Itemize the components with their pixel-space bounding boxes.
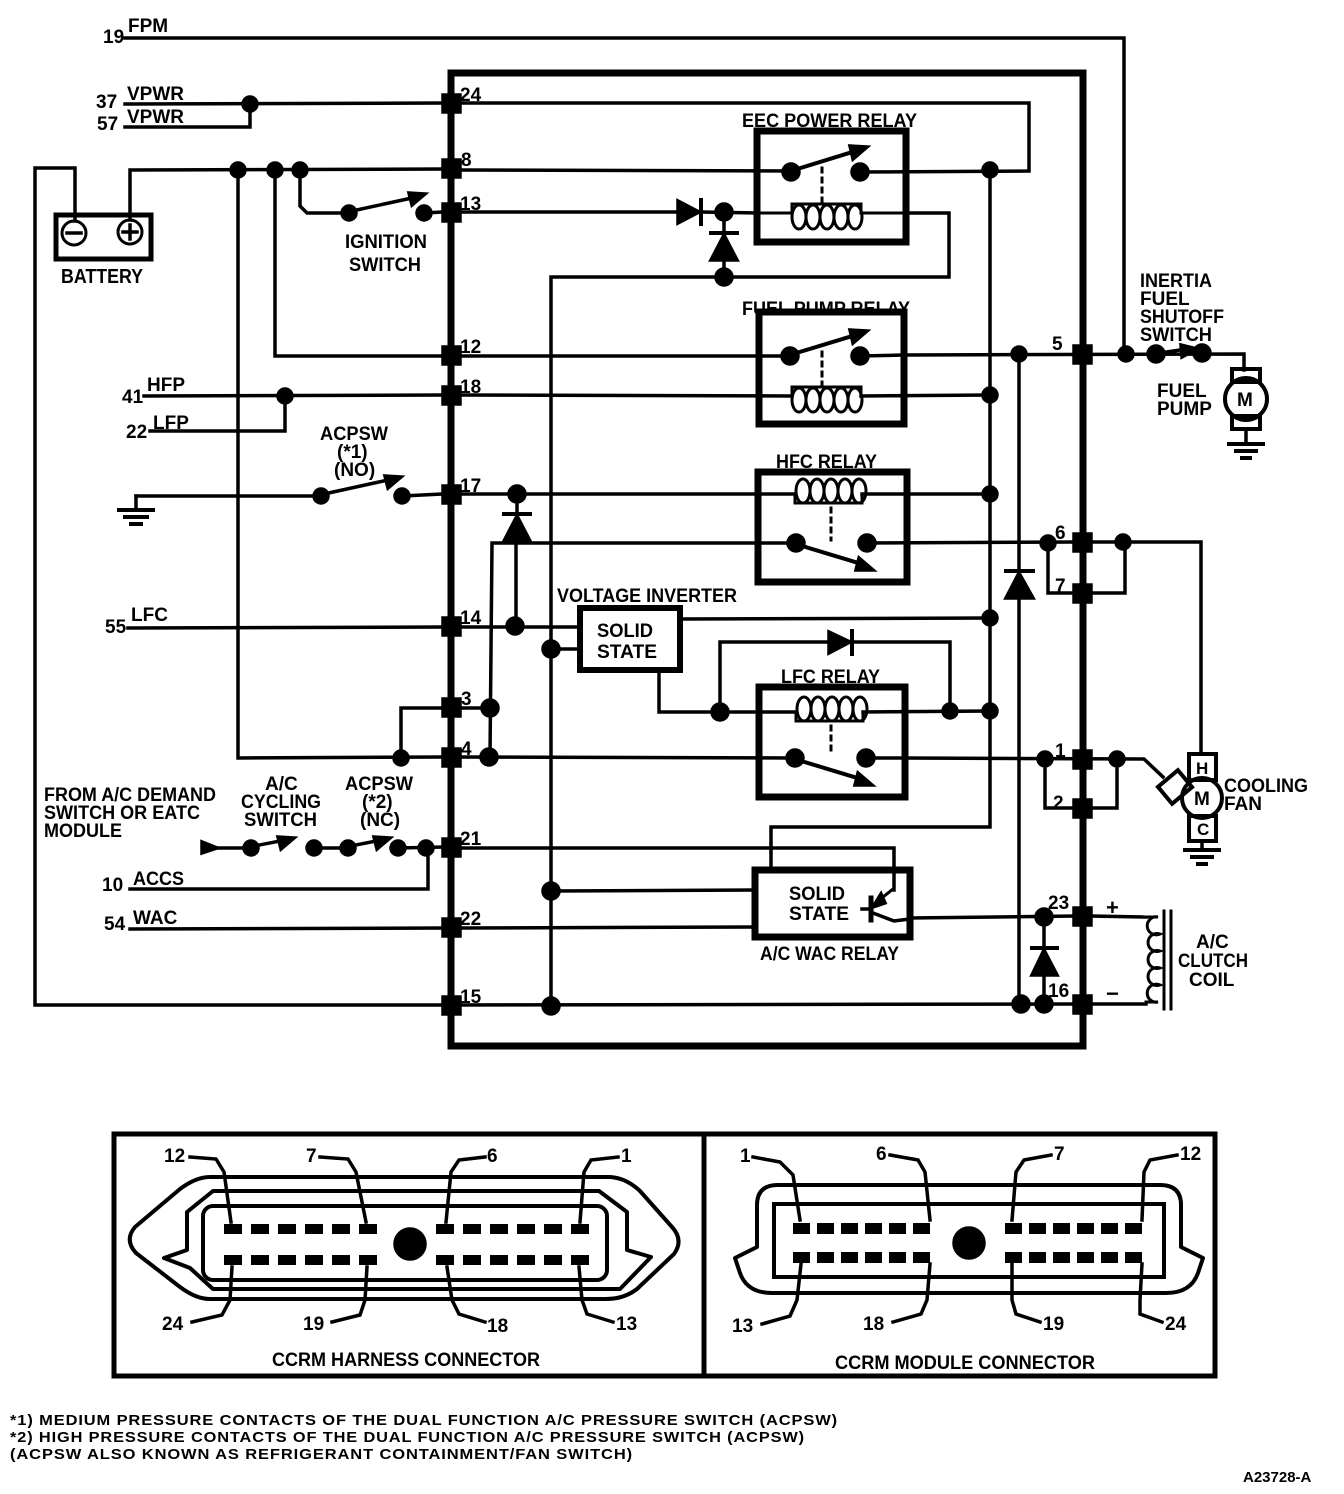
wire LFP joining HFP	[150, 396, 285, 431]
wire rail to inverter input	[551, 647, 580, 651]
wire pin7 right bracket up to pin6 line	[1091, 542, 1125, 593]
pin 1	[1055, 741, 1091, 768]
svg-text:5: 5	[1052, 334, 1063, 355]
junction rail pin16	[1013, 996, 1029, 1012]
ground ACPSW1	[119, 496, 153, 524]
svg-text:VPWR: VPWR	[127, 84, 184, 105]
pin 2	[1053, 793, 1091, 817]
svg-text:VOLTAGE INVERTER: VOLTAGE INVERTER	[557, 586, 737, 607]
harness label 18	[447, 1267, 508, 1337]
junction pin3	[482, 700, 498, 716]
pin 4	[443, 739, 472, 766]
wire LFC to pin 14	[128, 627, 443, 628]
inertia fuel shutoff switch	[1140, 271, 1224, 362]
pin 24	[443, 85, 482, 112]
junction pin13/D2	[716, 204, 732, 220]
svg-text:(NO): (NO)	[334, 460, 375, 481]
svg-text:13: 13	[732, 1316, 753, 1337]
wire inverter output to rail	[680, 618, 990, 619]
svg-text:H: H	[1196, 759, 1208, 778]
label 19 FPM	[103, 16, 168, 48]
module pins row top	[793, 1223, 1142, 1234]
junction D3 pin14	[507, 618, 523, 634]
wire battery feed down to pin 4 line	[238, 170, 443, 758]
module label 1	[740, 1146, 800, 1220]
voltage inverter U4	[557, 586, 737, 670]
svg-text:(NC): (NC)	[360, 810, 400, 831]
A/C demand chain: lead arrow	[202, 842, 217, 853]
junction HFC coil rail	[983, 487, 997, 501]
junction rail bottom pin15	[543, 998, 559, 1014]
junction pin4 inner	[481, 749, 497, 765]
junction pin6 outer	[1116, 535, 1130, 549]
svg-text:IGNITION: IGNITION	[345, 232, 427, 253]
wire pin21 into WAC relay base	[460, 848, 894, 890]
svg-text:MODULE: MODULE	[44, 821, 122, 842]
svg-text:1: 1	[621, 1146, 632, 1167]
CCRM module connector shell	[735, 1185, 1203, 1293]
pin 22	[443, 909, 481, 936]
label 22 LFP	[126, 413, 189, 443]
svg-text:24: 24	[162, 1314, 184, 1335]
wire VPWR57 joining VPWR37	[125, 104, 250, 127]
wire LFC coil right to rail	[863, 711, 990, 712]
svg-text:HFP: HFP	[147, 375, 185, 396]
wire ACCS to pin 21	[130, 848, 428, 889]
pin 21	[443, 829, 482, 856]
svg-text:18: 18	[487, 1316, 508, 1337]
CCRM module outline	[451, 73, 1083, 1046]
svg-text:10: 10	[102, 875, 123, 896]
junction diode pin16 line	[1036, 996, 1052, 1012]
label 41 HFP	[122, 375, 185, 408]
label 37 VPWR	[96, 84, 184, 113]
fuel pump motor M1	[1157, 369, 1267, 429]
diode D5	[1032, 917, 1057, 1004]
wire between switches	[314, 846, 348, 850]
pin 3	[443, 689, 472, 716]
harness label 1	[580, 1146, 632, 1222]
svg-text:19: 19	[103, 27, 124, 48]
wire pin6 to pin7 bracket left	[1048, 543, 1074, 593]
module label 12	[1142, 1144, 1201, 1220]
EEC power relay U1	[742, 111, 917, 242]
svg-text:STATE: STATE	[597, 642, 657, 663]
svg-text:SOLID: SOLID	[789, 884, 845, 905]
ACPSW NO switch labels	[320, 424, 388, 481]
pin 8	[443, 150, 472, 177]
svg-text:24: 24	[1165, 1314, 1187, 1335]
wire VPWR37 to pin 24	[125, 103, 443, 104]
junction inverter out rail	[983, 611, 997, 625]
svg-text:CCRM HARNESS CONNECTOR: CCRM HARNESS CONNECTOR	[272, 1350, 540, 1371]
ACPSW NC label	[345, 774, 413, 831]
svg-text:CLUTCH: CLUTCH	[1178, 951, 1248, 972]
wire HFP to pin 18	[144, 395, 443, 396]
junction dot b+ a	[231, 163, 245, 177]
CCRM harness connector shell	[130, 1177, 679, 1299]
wire pin12 to FP switch	[460, 354, 790, 358]
wire pin13 to diode D1	[460, 210, 678, 214]
wire WAC output to pin 23	[910, 916, 1074, 918]
svg-text:7: 7	[306, 1146, 317, 1167]
pin 17	[443, 476, 481, 503]
pin 15	[443, 987, 482, 1014]
junction EEC right vertical	[983, 163, 997, 177]
junction dot b+ c	[293, 163, 307, 177]
A/C cycling switch	[244, 837, 321, 855]
FROM A/C DEMAND text	[44, 785, 216, 842]
module label 18	[863, 1264, 930, 1335]
vertical rail pin5 to pin16 with diode D6	[1006, 354, 1033, 1004]
harness label 24	[162, 1267, 232, 1335]
module label 13	[732, 1264, 801, 1337]
harness label 13	[579, 1267, 637, 1335]
label 10 ACCS	[102, 869, 184, 896]
ACPSW NO switch	[136, 476, 443, 503]
junction LFC coil right freewheel	[943, 704, 957, 718]
wire pin14 to inverter	[460, 625, 580, 629]
wire pin1 to pin2 bracket left	[1045, 759, 1074, 808]
wire pin15 rail to pin16	[460, 1004, 1074, 1005]
svg-text:1: 1	[740, 1146, 751, 1167]
junction rail inverter input	[543, 641, 559, 657]
harness pins row top	[224, 1224, 589, 1234]
pin 14	[443, 608, 482, 635]
svg-text:55: 55	[105, 617, 127, 638]
svg-text:SOLID: SOLID	[597, 621, 653, 642]
module label 7	[1012, 1144, 1065, 1220]
svg-text:COIL: COIL	[1189, 970, 1235, 991]
junction LFC coil input	[712, 704, 728, 720]
wire pin16 to clutch coil	[1091, 1002, 1146, 1006]
svg-text:7: 7	[1054, 1144, 1065, 1165]
module label 24	[1140, 1264, 1187, 1335]
module label 19	[1012, 1264, 1064, 1335]
harness label 6	[446, 1146, 498, 1222]
diode D1	[678, 200, 757, 224]
pin 16	[1048, 981, 1091, 1013]
diode D4	[829, 631, 950, 711]
ignition switch	[300, 170, 443, 276]
fuel pump relay U2	[742, 299, 910, 424]
svg-text:M: M	[1194, 789, 1210, 810]
wire LFC switch right to pin1 and cooling fan L	[866, 758, 1163, 777]
label 54 WAC	[104, 908, 178, 935]
wire pin18 to FP coil	[460, 395, 792, 396]
svg-text:13: 13	[616, 1314, 637, 1335]
svg-text:19: 19	[1043, 1314, 1064, 1335]
pin 7	[1055, 576, 1091, 602]
wire pin3 inner stub	[460, 706, 490, 710]
svg-text:12: 12	[1180, 1144, 1201, 1165]
wire pin2 right bracket up to pin1 line	[1091, 759, 1117, 808]
svg-text:57: 57	[97, 114, 118, 135]
svg-text:M: M	[1237, 390, 1253, 411]
junction D2 bottom	[716, 269, 732, 285]
junction pin1 bracket	[1038, 752, 1052, 766]
svg-text:LFC: LFC	[131, 605, 168, 626]
harness label 7	[306, 1146, 366, 1222]
svg-text:VPWR: VPWR	[127, 107, 184, 128]
svg-text:(ACPSW ALSO KNOWN AS REFRIGERA: (ACPSW ALSO KNOWN AS REFRIGERANT CONTAIN…	[10, 1446, 633, 1463]
svg-text:SWITCH: SWITCH	[244, 810, 317, 831]
svg-text:A23728-A: A23728-A	[1243, 1469, 1312, 1486]
wire pin22 to WAC relay	[460, 927, 755, 928]
svg-text:PUMP: PUMP	[1157, 399, 1212, 420]
wire free-wheel loop with diode D4	[720, 642, 829, 712]
module pins row bottom	[793, 1252, 1142, 1263]
wire pin4 to LFC switch	[460, 757, 795, 758]
svg-text:FPM: FPM	[128, 16, 168, 37]
wire pin17 to HFC coil	[460, 492, 795, 496]
junction dot b+ b	[268, 163, 282, 177]
wire FPM pin19 to inertia junction	[125, 38, 1124, 354]
wire inverter bottom output to LFC coil	[659, 670, 795, 712]
junction pin6 bracket	[1041, 536, 1055, 550]
pin 6	[1055, 523, 1091, 551]
junction rail WAC	[543, 883, 559, 899]
cooling fan	[1158, 754, 1308, 841]
wire FP switch to pin 5 and inertia switch	[860, 354, 1244, 370]
LFC relay U5	[759, 667, 905, 797]
pin 18	[443, 377, 481, 404]
junction FP coil rail	[983, 388, 997, 402]
ground cooling fan	[1185, 841, 1219, 864]
svg-text:19: 19	[303, 1314, 324, 1335]
svg-text:SWITCH: SWITCH	[349, 255, 421, 276]
HFC relay U3	[758, 452, 907, 582]
wire pin3 bracket	[401, 708, 443, 758]
svg-text:41: 41	[122, 387, 144, 408]
pin 5	[1052, 334, 1091, 363]
wire HFC switch left down to pin3/pin4	[490, 543, 796, 757]
svg-text:8: 8	[461, 150, 472, 171]
svg-text:18: 18	[863, 1314, 884, 1335]
vertical rail from EEC junction to WAC relay	[771, 170, 990, 870]
pin 13	[443, 194, 481, 221]
module label 6	[876, 1144, 930, 1220]
svg-text:37: 37	[96, 92, 117, 113]
wire pin23 to clutch coil	[1091, 916, 1146, 917]
label 55 LFC	[105, 605, 168, 638]
svg-text:*2) HIGH PRESSURE CONTACTS OF: *2) HIGH PRESSURE CONTACTS OF THE DUAL F…	[10, 1429, 805, 1446]
connector panel frame	[114, 1134, 1215, 1376]
svg-text:6: 6	[487, 1146, 498, 1167]
ground fuel pump	[1229, 429, 1263, 458]
junction HFP/LFP	[278, 389, 292, 403]
svg-text:2: 2	[1053, 793, 1064, 814]
svg-text:A/C: A/C	[1196, 932, 1229, 953]
wire FP coil right to vertical rail	[861, 395, 990, 396]
diode D3 pin17 to pin14	[504, 494, 530, 626]
svg-text:BATTERY: BATTERY	[61, 266, 144, 288]
svg-text:FAN: FAN	[1224, 794, 1262, 815]
junction VPWR	[243, 97, 257, 111]
svg-text:WAC: WAC	[133, 908, 178, 929]
svg-text:STATE: STATE	[789, 904, 849, 925]
wire EEC switch right to pin24 loop	[460, 103, 1029, 172]
svg-text:6: 6	[876, 1144, 887, 1165]
svg-text:22: 22	[126, 422, 147, 443]
A/C clutch coil L1	[1146, 911, 1248, 1009]
label 57 VPWR	[97, 107, 184, 135]
harness label 12	[164, 1146, 231, 1222]
svg-text:C: C	[1197, 820, 1209, 839]
junction pin4 bracket	[394, 751, 408, 765]
wire EEC coil right down and across to pin15 rail	[551, 213, 949, 1007]
A/C CYCLING SWITCH label	[241, 774, 321, 831]
svg-text:12: 12	[164, 1146, 185, 1167]
svg-text:SWITCH: SWITCH	[1140, 325, 1212, 346]
wire battery negative ground return to pin 15	[35, 168, 443, 1005]
junction LFC coil rail	[983, 704, 997, 718]
wire HFC coil right to rail	[862, 492, 990, 496]
harness pins row bottom	[224, 1255, 589, 1265]
svg-text:CCRM MODULE CONNECTOR: CCRM MODULE CONNECTOR	[835, 1353, 1095, 1374]
junction pin5 vertical	[1012, 347, 1026, 361]
wire to pin 12	[275, 170, 443, 356]
svg-text:A/C WAC RELAY: A/C WAC RELAY	[760, 944, 899, 965]
junction pin23 diode	[1036, 909, 1052, 925]
pin 23	[1048, 893, 1091, 925]
wire pin6 to cooling fan H	[1091, 542, 1201, 754]
wire lead to cycling switch	[212, 846, 248, 850]
svg-text:ACCS: ACCS	[133, 869, 184, 890]
pin 12	[443, 337, 481, 364]
junction pin17 diode	[509, 486, 525, 502]
svg-text:*1) MEDIUM PRESSURE CONTACTS O: *1) MEDIUM PRESSURE CONTACTS OF THE DUAL…	[10, 1412, 838, 1429]
wire rail mid to WAC relay	[551, 890, 755, 891]
diode D2 to EEC coil return	[711, 212, 737, 277]
wire HFC switch right to pin6	[867, 542, 1074, 543]
wire WAC to pin 22	[130, 928, 443, 929]
wire battery positive to pin 8	[130, 169, 443, 220]
junction FPM drop	[1119, 347, 1133, 361]
wire pin8 to EEC switch	[460, 170, 791, 171]
battery	[56, 215, 151, 288]
svg-text:54: 54	[104, 914, 126, 935]
junction pin1 outer	[1110, 752, 1124, 766]
connector panel divider	[702, 1134, 707, 1376]
harness label 19	[303, 1267, 367, 1335]
A/C WAC relay U6	[755, 870, 910, 965]
ACPSW NC switch	[341, 837, 443, 855]
